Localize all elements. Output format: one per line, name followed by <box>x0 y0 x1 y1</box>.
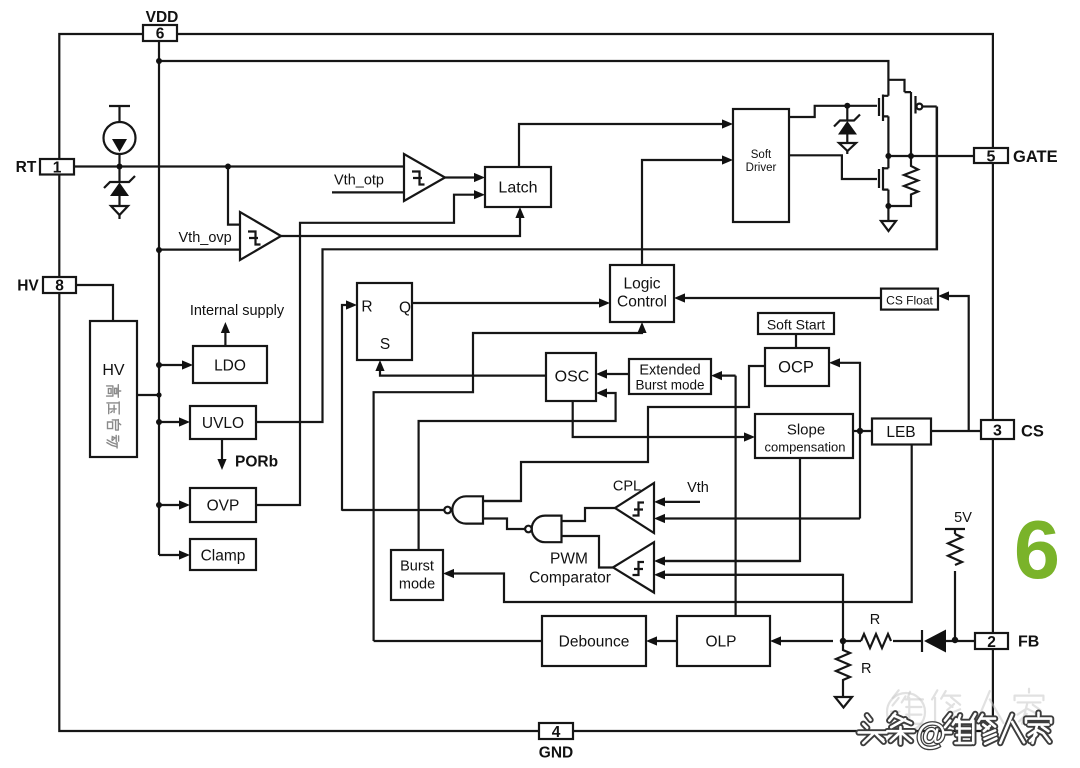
svg-text:Burst mode: Burst mode <box>635 378 704 393</box>
svg-text:HV: HV <box>17 278 39 295</box>
svg-text:Soft: Soft <box>751 149 772 161</box>
svg-text:Extended: Extended <box>639 363 700 379</box>
svg-text:Burst: Burst <box>400 559 434 575</box>
svg-text:CS: CS <box>1021 423 1044 441</box>
svg-text:4: 4 <box>552 724 561 741</box>
svg-text:Latch: Latch <box>498 180 537 197</box>
svg-text:R: R <box>861 661 871 677</box>
svg-text:mode: mode <box>399 577 435 593</box>
svg-text:R: R <box>870 612 880 628</box>
svg-text:CPL: CPL <box>613 479 641 495</box>
svg-text:2: 2 <box>987 634 996 651</box>
svg-text:1: 1 <box>53 160 62 177</box>
svg-text:6: 6 <box>1014 503 1060 596</box>
svg-text:LEB: LEB <box>886 424 915 441</box>
svg-text:OLP: OLP <box>705 634 736 651</box>
svg-text:PORb: PORb <box>235 454 278 471</box>
svg-text:OSC: OSC <box>555 369 590 386</box>
svg-text:8: 8 <box>55 278 64 295</box>
svg-text:OCP: OCP <box>778 359 814 377</box>
svg-text:Vth_ovp: Vth_ovp <box>179 230 232 246</box>
svg-text:6: 6 <box>156 26 165 43</box>
svg-text:GND: GND <box>539 745 573 762</box>
svg-text:Slope: Slope <box>787 422 825 439</box>
svg-text:compensation: compensation <box>765 440 846 455</box>
svg-text:Vth: Vth <box>687 480 709 496</box>
svg-text:Control: Control <box>617 294 667 311</box>
svg-text:RT: RT <box>16 159 37 176</box>
svg-text:3: 3 <box>993 423 1002 440</box>
svg-text:S: S <box>380 336 390 353</box>
svg-text:CS Float: CS Float <box>886 294 933 308</box>
svg-text:OVP: OVP <box>207 498 240 515</box>
svg-text:R: R <box>361 299 372 316</box>
svg-text:Clamp: Clamp <box>201 548 246 565</box>
svg-text:Logic: Logic <box>623 276 660 293</box>
svg-text:Driver: Driver <box>746 162 777 174</box>
svg-text:Vth_otp: Vth_otp <box>334 173 384 189</box>
svg-text:5V: 5V <box>954 510 972 526</box>
svg-text:VDD: VDD <box>146 9 179 26</box>
svg-text:@: @ <box>916 716 946 751</box>
svg-text:5: 5 <box>987 149 996 166</box>
svg-text:Debounce: Debounce <box>559 634 630 651</box>
svg-text:Soft Start: Soft Start <box>767 317 825 333</box>
svg-text:Q: Q <box>399 300 411 317</box>
svg-text:UVLO: UVLO <box>202 415 244 432</box>
svg-text:Comparator: Comparator <box>529 570 611 587</box>
svg-text:HV: HV <box>102 362 125 379</box>
svg-text:PWM: PWM <box>550 551 588 568</box>
svg-text:FB: FB <box>1018 634 1039 651</box>
svg-text:Internal supply: Internal supply <box>190 303 285 319</box>
svg-text:LDO: LDO <box>214 358 246 375</box>
svg-text:GATE: GATE <box>1013 148 1058 166</box>
